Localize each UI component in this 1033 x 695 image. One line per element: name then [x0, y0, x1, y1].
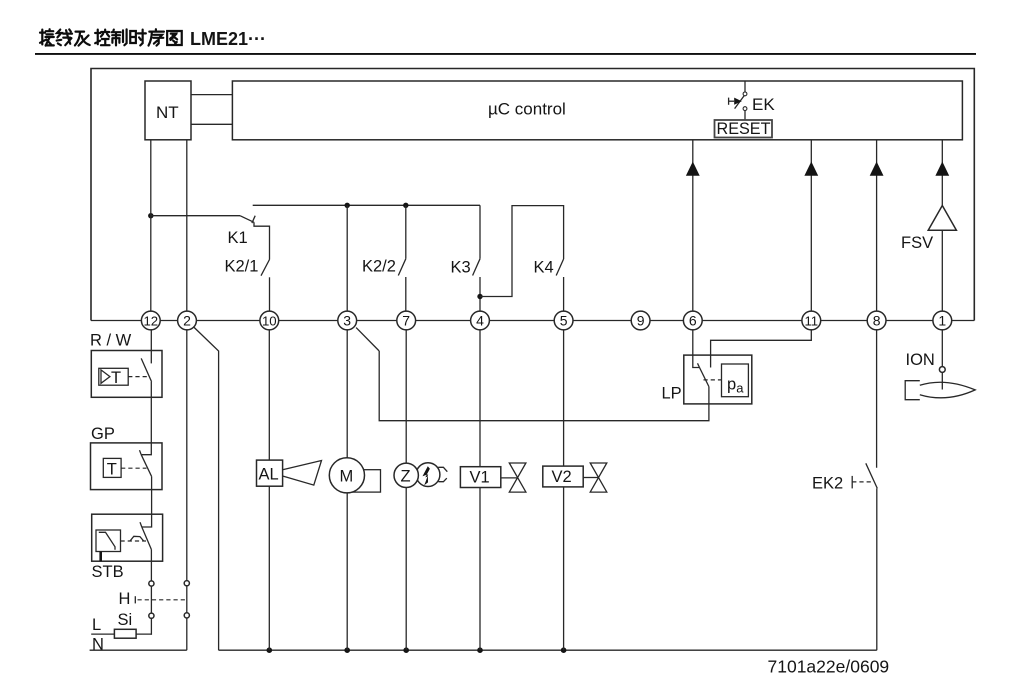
terminal 12	[141, 311, 160, 330]
flame rod contact circle	[939, 367, 945, 373]
wire NT to uC lower	[191, 123, 232, 125]
junction node K2 bus to terminal 3	[345, 203, 350, 208]
wire R/W contact to GP	[150, 382, 152, 443]
wire EK2 to bus	[876, 488, 878, 650]
wire branch to K4	[480, 206, 564, 297]
junction node bus V1	[477, 647, 483, 653]
svg-text:7: 7	[402, 313, 410, 329]
thermostat R/W box	[91, 351, 162, 398]
fuse Si	[114, 629, 136, 638]
wire M to bus	[346, 493, 348, 650]
wire uC output to terminal 6	[692, 140, 694, 312]
svg-text:T: T	[111, 369, 121, 387]
wire K3 to terminal 4	[479, 277, 481, 312]
char ji	[75, 32, 90, 46]
svg-text:R / W: R / W	[90, 332, 132, 350]
svg-text:11: 11	[804, 313, 818, 328]
wire terminal 2 to plug	[186, 329, 188, 580]
wire terminal 3 to motor	[346, 329, 348, 460]
wire EK to RESET	[744, 110, 746, 120]
contact GP blade	[141, 455, 152, 477]
dashed link R/W	[128, 376, 147, 378]
svg-text:LP: LP	[662, 385, 682, 403]
sensor STB stem	[99, 552, 102, 562]
wire GP contact to STB	[151, 477, 153, 515]
title rule	[35, 53, 976, 55]
contact K2/2 blade	[398, 259, 406, 276]
plug contact N lower	[184, 613, 189, 618]
char tu	[167, 31, 182, 45]
wire LP contact down	[379, 351, 709, 421]
flame rod electrode	[941, 372, 943, 389]
pressure switch LP box	[684, 355, 752, 404]
wire N neutral line	[90, 649, 187, 651]
junction node bus V2	[561, 647, 567, 653]
svg-text:FSV: FSV	[901, 234, 933, 252]
arrowhead on wire from terminal 1	[935, 162, 949, 176]
wire NT to uC upper	[191, 94, 232, 96]
junction node K2 bus to K2/2	[403, 203, 408, 208]
wire terminal 7 to ignition	[405, 329, 407, 463]
terminal 8	[867, 311, 886, 330]
contact K2/1 blade	[261, 260, 270, 276]
NT power unit box	[145, 81, 191, 140]
svg-text:Z: Z	[401, 468, 411, 486]
contact STB jog	[142, 514, 152, 527]
svg-text:10: 10	[262, 313, 277, 328]
dashed link STB	[121, 540, 147, 542]
wire uC output to terminal 11	[810, 140, 812, 312]
wire terminal 12 to R/W contact	[150, 329, 152, 363]
wire terminal 10 to AL	[268, 329, 270, 460]
wire terminal 1 to flame rod	[941, 329, 943, 366]
plug contact L upper	[149, 581, 154, 586]
valve V2 body	[590, 463, 607, 492]
pushbutton EK wire from box top	[744, 81, 746, 92]
terminal 11	[802, 311, 821, 330]
RESET box	[715, 120, 773, 138]
wire Z to bus	[405, 488, 407, 651]
contact GP jog	[141, 443, 151, 455]
wire K2 bus to terminal 3	[346, 205, 348, 311]
char zhi	[112, 29, 127, 45]
terminal 2	[178, 311, 197, 330]
safety limiter STB box	[92, 514, 163, 561]
plug contact N upper	[184, 581, 189, 586]
wire V2 to bus	[563, 487, 565, 650]
svg-text:6: 6	[689, 313, 697, 329]
ignition spark gap	[438, 467, 447, 481]
sensor R/W inner box	[99, 368, 128, 385]
svg-text:EK2: EK2	[812, 475, 843, 493]
wire V1 to bus	[479, 488, 481, 651]
wire L phase line	[91, 633, 151, 635]
outer frame top	[91, 69, 974, 321]
sensor LP pa box	[722, 364, 749, 397]
terminal bus line	[91, 320, 974, 322]
ignition transformer second circle	[416, 463, 440, 487]
svg-text:K1: K1	[228, 229, 248, 247]
terminal 4	[471, 311, 490, 330]
svg-text:V2: V2	[552, 468, 572, 486]
flame lens	[920, 382, 975, 398]
wire K2 bus to contact K3	[479, 205, 481, 258]
svg-text:12: 12	[143, 313, 158, 328]
valve V1 link	[501, 477, 518, 479]
wire K2/1 to terminal 10	[269, 277, 271, 311]
arrowhead on wire to terminal 6	[686, 162, 700, 176]
motor M housing	[347, 470, 381, 492]
sensor STB curve symbol	[99, 532, 115, 550]
svg-text:9: 9	[637, 313, 645, 329]
valve V1 box	[460, 467, 500, 488]
junction node on wire 12 for K1 branch	[148, 213, 153, 218]
svg-text:NT: NT	[156, 103, 179, 122]
alarm AL box	[257, 460, 283, 486]
char shi	[130, 30, 146, 46]
plug contact L lower	[149, 613, 154, 618]
contact GP tick	[140, 450, 142, 455]
amplifier FSV triangle	[928, 206, 956, 231]
wire terminal 6 to LP contact	[693, 329, 700, 367]
char jie	[40, 29, 54, 45]
wire plug N to N line	[186, 618, 188, 650]
sensor GP inner box	[103, 458, 121, 477]
wire terminal 2 diagonal to return bus	[193, 327, 218, 651]
svg-text:µC control: µC control	[488, 100, 566, 119]
junction node bus Z	[403, 647, 409, 653]
valve V2 link	[583, 477, 598, 479]
dashed link GP	[121, 467, 146, 469]
svg-text:Si: Si	[118, 611, 133, 629]
wire terminal 8 to EK2	[876, 329, 878, 467]
wire K2/2 to terminal 7	[405, 277, 407, 312]
wire plug L to fuse line	[150, 618, 152, 635]
contact STB tick	[140, 522, 142, 527]
svg-text:3: 3	[343, 313, 351, 329]
junction node bus M	[344, 647, 350, 653]
dashed link LP	[704, 379, 722, 381]
valve V2 box	[543, 466, 583, 487]
contact K1 blade	[240, 216, 254, 223]
svg-text:1: 1	[938, 313, 946, 329]
wire K4 to terminal 5	[563, 277, 565, 312]
contact K4 blade	[556, 259, 563, 276]
contact STB blade	[142, 527, 152, 550]
wire NT to terminal 2	[186, 140, 188, 312]
terminal 5	[554, 311, 573, 330]
valve V1 body	[509, 463, 526, 492]
tick H	[134, 596, 136, 603]
svg-text:V1: V1	[470, 469, 490, 487]
dashed link EK2	[852, 481, 872, 483]
wire STB contact to plug	[150, 550, 152, 581]
arrowhead on wire to terminal 8	[870, 162, 884, 176]
svg-text:GP: GP	[91, 425, 115, 443]
svg-text:M: M	[340, 468, 354, 486]
op-amp U1: microprocessor control box	[232, 81, 962, 140]
svg-text:K2/2: K2/2	[362, 258, 396, 276]
wire K2 bus to contact K2/2	[405, 205, 407, 258]
svg-text:K3: K3	[451, 259, 471, 277]
junction node K3/K4 branch	[477, 294, 482, 299]
char xian	[57, 29, 72, 45]
svg-text:K2/1: K2/1	[225, 258, 259, 276]
svg-text:8: 8	[873, 313, 881, 329]
svg-text:LME21···: LME21···	[190, 29, 266, 49]
junction node bus AL	[267, 647, 273, 653]
wire plug N	[186, 586, 188, 613]
alarm AL horn	[283, 461, 322, 486]
sensor STB inner box	[96, 530, 121, 552]
svg-text:T: T	[107, 461, 117, 479]
wire terminal 11 to LP	[711, 329, 812, 367]
latch symbol STB	[130, 536, 144, 541]
wire NT to terminal 12	[150, 140, 152, 312]
svg-text:AL: AL	[259, 466, 279, 484]
pressure switch GP box	[91, 443, 163, 490]
title text 接线及控制时序图 (drawn glyph strokes)	[40, 29, 182, 45]
svg-text:ION: ION	[906, 351, 935, 369]
contact LP blade	[700, 368, 709, 387]
wire K2 feed bus	[253, 204, 480, 206]
svg-text:RESET: RESET	[717, 120, 771, 138]
svg-text:L: L	[92, 616, 101, 634]
contact K1 feed wire	[151, 215, 240, 217]
contact K1 actuating tick	[252, 216, 255, 223]
terminal 10	[260, 311, 279, 330]
contact LP tick	[698, 363, 700, 367]
svg-text:5: 5	[560, 313, 568, 329]
contact K1 step to K2/1	[254, 222, 270, 259]
char kong	[95, 30, 109, 46]
wire AL to bus	[268, 486, 270, 650]
contact EK2 blade	[866, 463, 878, 488]
svg-text:H: H	[119, 590, 131, 608]
wire plug L	[150, 586, 152, 613]
pushbutton EK upper contact	[743, 92, 747, 96]
svg-text:EK: EK	[752, 95, 775, 114]
wire uC input from terminal 1	[941, 140, 943, 312]
contact R/W blade	[141, 358, 151, 381]
tick EK2	[851, 476, 853, 489]
wire terminal 4 to valve V1	[479, 329, 481, 466]
wire uC output to terminal 8	[876, 140, 878, 312]
contact K3 blade	[473, 259, 480, 276]
svg-text:7101a22e/0609: 7101a22e/0609	[768, 656, 890, 676]
pushbutton EK lower contact	[743, 107, 747, 111]
sensor R/W triangle	[101, 370, 110, 383]
dashed link H	[138, 599, 187, 601]
terminal 7	[397, 311, 416, 330]
svg-text:K4: K4	[534, 259, 554, 277]
pushbutton EK blade	[735, 96, 745, 109]
terminal 9	[631, 311, 650, 330]
ignition transformer Z circle	[394, 463, 418, 487]
terminal 6	[683, 311, 702, 330]
arrowhead on wire to terminal 11	[804, 162, 818, 176]
terminal 3	[338, 311, 357, 330]
svg-text:2: 2	[183, 313, 191, 329]
ignition spark bolt	[423, 466, 430, 485]
wire bottom return bus	[219, 649, 877, 651]
motor M circle	[329, 458, 364, 493]
svg-text:STB: STB	[92, 563, 124, 581]
svg-text:4: 4	[476, 313, 484, 329]
wire terminal 5 to valve V2	[563, 329, 565, 466]
char xu	[149, 29, 164, 45]
burner bracket	[905, 381, 920, 400]
terminal 1	[933, 311, 952, 330]
pushbutton EK actuator	[734, 98, 742, 105]
wire diagonal terminal 3 to LP return	[356, 328, 379, 351]
